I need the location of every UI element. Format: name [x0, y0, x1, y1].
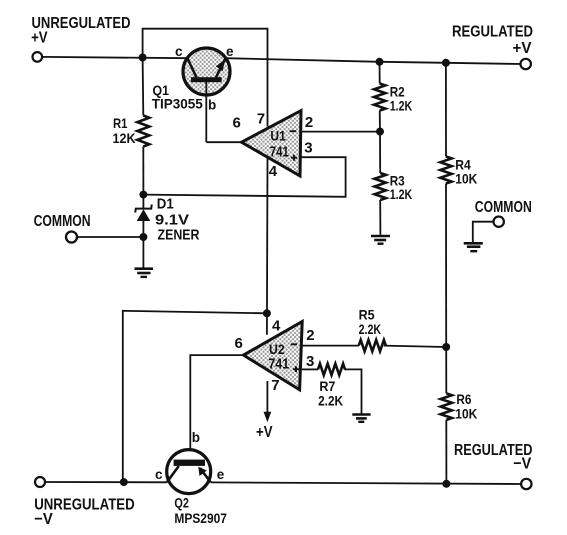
- wire: U2 pin 2 to R5: [302, 345, 359, 347]
- terminal: regulated -V output: [521, 479, 531, 489]
- label REGULATED -V (bottom right): [454, 442, 533, 472]
- wire: unreg -V terminal to Q2 collector: [45, 481, 167, 483]
- node: R2 / R3 / U1 pin2: [376, 128, 384, 136]
- node: -V rail / R6 bottom: [442, 480, 450, 488]
- terminal: unregulated -V input: [35, 477, 45, 487]
- svg-text:Q2: Q2: [174, 495, 189, 511]
- ground below D1: [135, 237, 154, 277]
- svg-text:2: 2: [305, 114, 313, 131]
- label R7 2.2K: [318, 378, 343, 408]
- label UNREGULATED -V (bottom left): [34, 497, 135, 529]
- terminal: unregulated +V input: [33, 52, 43, 62]
- ground at common right: [464, 243, 483, 251]
- svg-text:TIP3055: TIP3055: [152, 95, 203, 111]
- svg-text:3: 3: [304, 139, 312, 156]
- svg-text:6: 6: [233, 115, 241, 132]
- svg-text:1.2K: 1.2K: [390, 97, 413, 113]
- wire: U2 pin 6 output to Q2 base: [190, 355, 243, 460]
- svg-text:R1: R1: [113, 115, 128, 131]
- node: -V rail / sense wire junction: [120, 478, 128, 486]
- svg-text:4: 4: [269, 163, 278, 180]
- svg-text:+V: +V: [31, 29, 48, 46]
- svg-text:9.1V: 9.1V: [155, 212, 189, 228]
- svg-text:b: b: [208, 98, 216, 113]
- svg-text:COMMON: COMMON: [475, 199, 532, 216]
- node: rail / R4 top: [442, 59, 450, 67]
- resistor R7 (horizontal): [318, 364, 345, 375]
- svg-text:6: 6: [235, 335, 243, 352]
- svg-text:12K: 12K: [113, 130, 136, 146]
- diode D1 (9.1V zener): [135, 195, 152, 237]
- label R5 2.2K: [359, 306, 382, 336]
- wire: common terminal to D1 anode: [77, 236, 144, 238]
- terminal: common (left): [66, 232, 77, 243]
- label Q1 TIP3055: [152, 82, 203, 112]
- svg-text:7: 7: [271, 377, 279, 394]
- svg-text:U1: U1: [270, 129, 286, 144]
- wire: Q1 base to U1 pin 6 output: [206, 141, 241, 143]
- svg-text:2.2K: 2.2K: [318, 393, 343, 409]
- svg-text:e: e: [226, 44, 234, 59]
- label R2 1.2K: [390, 84, 413, 114]
- wire: +V bypass over Q1 down to U1 pin 7: [143, 29, 268, 127]
- label R4 10K: [455, 157, 477, 187]
- wire: common right to ground: [473, 222, 494, 243]
- svg-text:10K: 10K: [455, 405, 477, 421]
- wire: U1 pin 4 down to U2 pin 4: [266, 159, 269, 335]
- svg-text:−V: −V: [34, 511, 53, 528]
- wire: R5 to R4/R6 node: [384, 346, 447, 347]
- svg-text:7: 7: [257, 111, 265, 128]
- svg-text:2.2K: 2.2K: [359, 321, 382, 337]
- resistor R6: [441, 347, 452, 484]
- transistor Q1 (NPN TIP3055): [183, 48, 230, 142]
- wire: U2 pin 3 to R7: [302, 368, 318, 370]
- terminal: regulated +V output: [521, 59, 531, 69]
- svg-text:D1: D1: [157, 197, 174, 213]
- label R1 12K: [113, 115, 136, 146]
- svg-text:ZENER: ZENER: [158, 228, 200, 244]
- svg-text:MPS2907: MPS2907: [174, 510, 227, 526]
- node: R1 / D1 / U1 pin3 feedback junction: [139, 191, 147, 199]
- label REGULATED +V (top right): [452, 24, 533, 58]
- svg-text:+V: +V: [513, 40, 532, 57]
- svg-text:4: 4: [272, 317, 281, 334]
- label R3 1.2K: [390, 173, 413, 203]
- resistor R2: [374, 62, 385, 132]
- resistor R4: [440, 63, 451, 347]
- resistor R3: [375, 132, 386, 235]
- wire + arrow: U2 pin 7 to +V: [264, 381, 272, 422]
- ground below R7: [352, 415, 370, 422]
- node: junction unreg+V / R1 / bypass: [139, 54, 147, 62]
- svg-text:−V: −V: [513, 455, 531, 472]
- svg-text:1.2K: 1.2K: [390, 186, 413, 202]
- wire: unreg +V terminal to Q1 collector: [42, 57, 188, 58]
- label Q2 MPS2907: [174, 495, 227, 527]
- svg-text:2: 2: [306, 327, 314, 344]
- svg-text:+V: +V: [256, 424, 273, 441]
- node: U1/U2 pin4 to -V sense junction: [263, 309, 271, 317]
- svg-text:REGULATED: REGULATED: [452, 24, 533, 41]
- svg-text:e: e: [217, 467, 225, 482]
- svg-text:3: 3: [306, 353, 314, 370]
- svg-text:COMMON: COMMON: [34, 213, 91, 230]
- op-amp U2 (741): [244, 322, 303, 390]
- transistor Q2 (PNP MPS2907): [167, 450, 211, 494]
- label UNREGULATED +V (top left): [31, 15, 130, 47]
- svg-text:c: c: [175, 44, 183, 59]
- wire: pin4 node left and down to unregulated -V rail: [123, 311, 267, 482]
- label R6 10K: [455, 391, 477, 421]
- svg-text:741: 741: [268, 356, 289, 373]
- node: rail / R2 top: [376, 58, 384, 66]
- svg-text:b: b: [192, 430, 200, 445]
- label D1 9.1V ZENER: [155, 197, 200, 244]
- svg-text:10K: 10K: [455, 170, 477, 186]
- node: D1 anode / common / ground: [139, 233, 147, 241]
- wire: U1 pin3 feedback (zener node to +input): [143, 157, 345, 197]
- terminal: common (right): [494, 217, 504, 227]
- wire: Q2 emitter to regulated -V output: [211, 482, 522, 484]
- svg-text:c: c: [155, 467, 163, 482]
- node: R4 / R6 / R5: [442, 343, 450, 351]
- resistor R5 (horizontal): [359, 340, 386, 351]
- regulated +V rail (Q1 emitter to output): [226, 58, 521, 64]
- wire: U1 pin 2 to R2/R3 divider: [301, 131, 380, 133]
- resistor R1: [137, 58, 149, 195]
- svg-text:741: 741: [270, 144, 289, 160]
- op-amp U1 (741): [242, 111, 302, 176]
- wire: R7 to ground: [344, 369, 361, 413]
- ground below R3: [371, 236, 390, 244]
